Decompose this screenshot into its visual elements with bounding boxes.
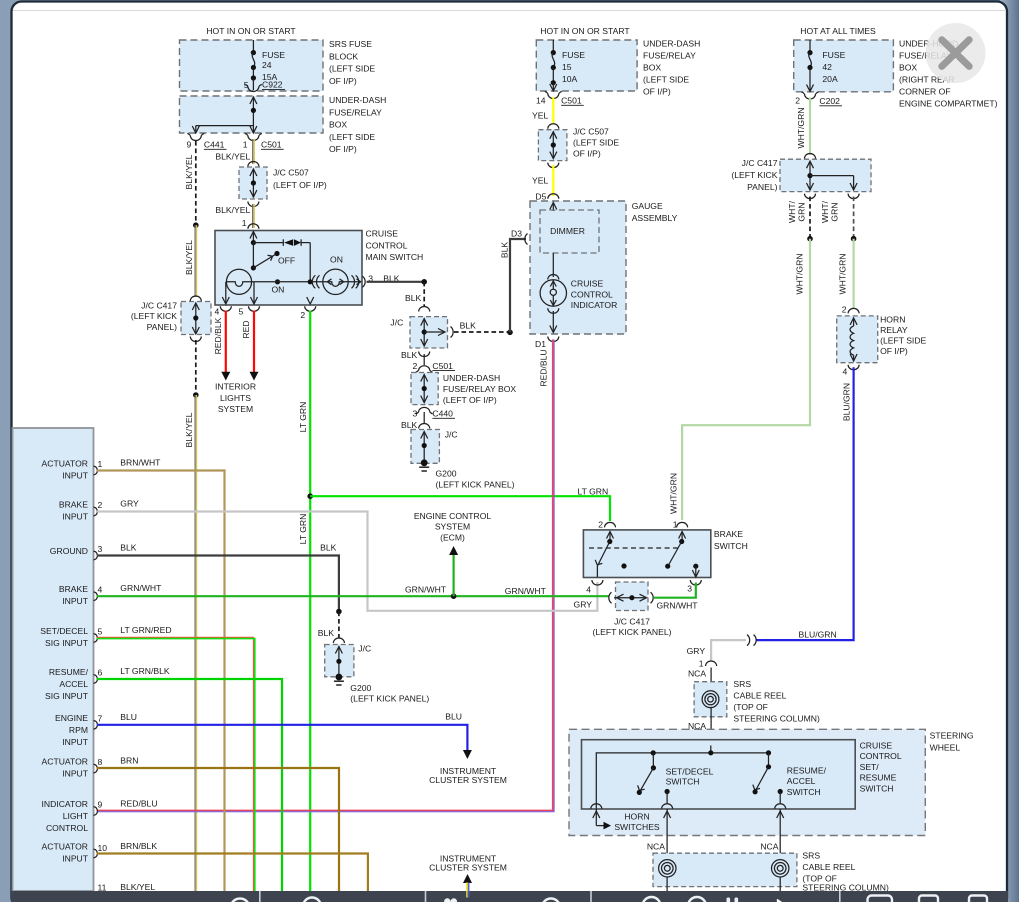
svg-text:FUSE: FUSE [262, 50, 285, 60]
svg-text:CONTROL: CONTROL [860, 751, 902, 761]
svg-text:G200: G200 [350, 683, 371, 693]
svg-text:BLK/YEL: BLK/YEL [120, 882, 155, 892]
svg-text:SET/DECEL: SET/DECEL [40, 626, 88, 636]
svg-text:STEERING: STEERING [930, 731, 974, 741]
connector into J/C C417 [190, 296, 201, 301]
svg-text:C501: C501 [561, 96, 582, 106]
svg-text:YEL: YEL [532, 111, 548, 121]
label HORN SWITCHES [614, 812, 660, 832]
svg-text:RESUME/: RESUME/ [787, 765, 827, 775]
label CRUISE CONTROL INDICATOR [571, 279, 617, 311]
indicator lamp ON right with parens [312, 269, 361, 294]
svg-text:WHT/GRN: WHT/GRN [669, 473, 679, 514]
resume output contact [778, 789, 783, 804]
connector cup entry [706, 744, 717, 749]
node junction [308, 279, 313, 284]
svg-text:2: 2 [795, 96, 800, 106]
pin 1 ACTUATOR INPUT [42, 459, 103, 481]
svg-text:CONTROL: CONTROL [571, 289, 613, 299]
svg-text:(LEFT KICK: (LEFT KICK [731, 170, 777, 180]
svg-text:6: 6 [98, 668, 103, 678]
connector C501 pin 2 [413, 361, 455, 372]
svg-text:ENGINE COMPARTMET): ENGINE COMPARTMET) [899, 99, 998, 109]
connector horn relay pin 4 [848, 365, 859, 370]
svg-text:(LEFT KICK PANEL): (LEFT KICK PANEL) [436, 480, 515, 490]
svg-text:LT GRN/RED: LT GRN/RED [120, 625, 171, 635]
label SRS CABLE REEL (TOP OF STEERING COLUMN) 2 [802, 851, 889, 893]
pin 9 INDICATOR LIGHT CONTROL [42, 799, 103, 833]
wire set/decel down with arrow [664, 809, 671, 860]
svg-text:GRY: GRY [120, 499, 139, 509]
pin 1 entry arrow [250, 232, 257, 243]
label CRUISE CONTROL SET/ RESUME SWITCH [860, 741, 902, 794]
svg-text:FUSE: FUSE [822, 50, 845, 60]
svg-text:NCA: NCA [688, 669, 706, 679]
svg-text:FUSE/RELAY BOX: FUSE/RELAY BOX [443, 384, 516, 394]
junction dot [193, 222, 199, 228]
label G200 (LEFT KICK PANEL) second [350, 683, 429, 704]
svg-text:BRAKE: BRAKE [59, 500, 88, 510]
svg-text:OFF: OFF [278, 255, 295, 265]
connector brake pin 2 top [605, 522, 616, 527]
svg-text:ACTUATOR: ACTUATOR [42, 459, 88, 469]
svg-text:HOT IN ON OR START: HOT IN ON OR START [540, 26, 630, 36]
svg-text:J/C: J/C [390, 318, 403, 328]
label J/C C417 (LEFT KICK PANEL) [131, 301, 177, 332]
svg-text:ENGINE CONTROL: ENGINE CONTROL [414, 511, 492, 521]
svg-text:OF I/P): OF I/P) [573, 149, 601, 159]
svg-text:SRS: SRS [802, 851, 820, 861]
svg-text:INPUT: INPUT [62, 854, 89, 864]
svg-text:(LEFT OF I/P): (LEFT OF I/P) [443, 395, 497, 405]
svg-text:ACTUATOR: ACTUATOR [42, 842, 88, 852]
close button [926, 23, 986, 83]
connector above J/C 2 [419, 424, 430, 429]
node junction BLK [421, 279, 427, 285]
node junction left [807, 236, 813, 242]
svg-text:J/C C417: J/C C417 [742, 158, 778, 168]
label RESUME/ ACCEL SWITCH [787, 765, 827, 797]
wires through reel 2 [667, 877, 780, 891]
svg-text:14: 14 [536, 96, 546, 106]
svg-text:PANEL): PANEL) [147, 322, 178, 332]
mouse cursor [776, 898, 788, 902]
wire down from diodes [309, 243, 311, 282]
pin 2 BRAKE INPUT [59, 500, 103, 522]
svg-text:3: 3 [687, 584, 692, 594]
ground G200 [419, 459, 429, 471]
wire WHT/GRN dashed left [809, 197, 811, 239]
SRS cable reel box 2 [653, 853, 797, 886]
connector below J/C C417 [190, 337, 201, 342]
connector above lamp [548, 275, 559, 280]
svg-text:SET/DECEL: SET/DECEL [666, 766, 714, 776]
node junction LT GRN branch [307, 493, 313, 499]
svg-text:BLU: BLU [445, 712, 462, 722]
J/C internals with right exit [421, 319, 445, 346]
ground G200 second [334, 674, 344, 685]
svg-text:LIGHT: LIGHT [63, 811, 89, 821]
wire BLK/YEL tan (dot to J/C C417) [195, 225, 196, 297]
svg-text:BLK: BLK [120, 543, 137, 553]
wire to diodes [253, 242, 283, 244]
wire WHT/GRN pale [809, 98, 811, 156]
wire BRN/WHT pin1 [97, 471, 225, 892]
J/C box (BLK) [410, 317, 448, 348]
svg-text:10: 10 [98, 843, 108, 853]
svg-text:FUSE/RELAY: FUSE/RELAY [329, 107, 382, 117]
svg-text:GROUND: GROUND [50, 546, 88, 556]
svg-text:LIGHTS: LIGHTS [220, 393, 251, 403]
svg-text:SWITCH: SWITCH [860, 783, 894, 793]
pin 7 ENGINE RPM INPUT [55, 713, 102, 747]
svg-text:BOX: BOX [899, 63, 917, 73]
bottom toolbar [11, 891, 1008, 902]
svg-text:LT GRN: LT GRN [298, 514, 308, 545]
connector resume pin bottom [775, 804, 786, 809]
svg-text:HORN: HORN [880, 315, 905, 325]
J/C C417 internals [192, 303, 199, 334]
wire GRN/WHT brake pin3 [654, 583, 696, 598]
svg-text:CORNER OF: CORNER OF [899, 87, 951, 97]
wire dimmer to lamp [552, 253, 554, 277]
node resume branch dot [766, 750, 771, 755]
svg-text:WHT/: WHT/ [820, 200, 830, 223]
svg-text:LT GRN/BLK: LT GRN/BLK [120, 666, 170, 676]
svg-text:SRS: SRS [733, 679, 751, 689]
svg-text:10A: 10A [562, 74, 578, 84]
arrow to ECM [449, 546, 458, 555]
svg-text:J/C: J/C [445, 430, 458, 440]
svg-text:YEL: YEL [532, 176, 548, 186]
wire GRN/WHT pin4 [97, 595, 609, 597]
svg-text:CRUISE: CRUISE [366, 229, 399, 239]
wire LT GRN/RED pin5 [97, 637, 255, 891]
svg-text:24: 24 [262, 60, 272, 70]
connector brake pin 3 bottom [690, 580, 701, 585]
svg-text:RED/BLK: RED/BLK [213, 317, 223, 354]
label STEERING WHEEL [930, 731, 974, 753]
svg-text:(ECM): (ECM) [440, 532, 465, 542]
svg-text:G200: G200 [436, 469, 457, 479]
svg-text:(LEFT KICK PANEL): (LEFT KICK PANEL) [593, 627, 672, 637]
connector above J/C C417 right [805, 154, 816, 159]
connector D5 [548, 194, 559, 199]
svg-text:BRAKE: BRAKE [59, 584, 88, 594]
svg-text:2: 2 [300, 310, 305, 320]
wire GRN/WHT up to ECM [453, 554, 455, 596]
svg-text:INPUT: INPUT [62, 471, 89, 481]
svg-text:OF I/P): OF I/P) [643, 87, 671, 97]
spiral reel 1 [702, 691, 719, 708]
label G200 (LEFT KICK PANEL) [436, 469, 515, 490]
wire LT GRN pin 2 down full height [309, 311, 311, 892]
box internals [421, 375, 428, 403]
wire BLK up to dimmer D3 [510, 239, 526, 332]
connector C440 pin 3 [413, 407, 455, 418]
header hairline [13, 10, 1006, 12]
svg-text:RPM: RPM [69, 725, 88, 735]
connectors below J/C C417 right [805, 194, 860, 199]
gauge assembly box [530, 201, 626, 334]
svg-text:BRAKE: BRAKE [714, 529, 743, 539]
switch lever OFF [251, 243, 280, 271]
svg-text:CLUSTER SYSTEM: CLUSTER SYSTEM [429, 775, 507, 785]
svg-text:GRN/WHT: GRN/WHT [120, 583, 162, 593]
node set/decel branch dot [651, 750, 656, 755]
svg-text:BRN/WHT: BRN/WHT [120, 458, 161, 468]
J/C C417 box green [616, 582, 649, 611]
pin 3 GROUND [50, 544, 103, 560]
label ENGINE CONTROL SYSTEM (ECM) [414, 511, 492, 543]
svg-text:LT GRN: LT GRN [578, 487, 609, 497]
svg-text:9: 9 [98, 800, 103, 810]
svg-text:BLK: BLK [401, 420, 418, 430]
wire YEL [552, 97, 554, 123]
connector pin 3 [363, 276, 366, 287]
svg-text:OF I/P): OF I/P) [880, 346, 908, 356]
svg-text:PANEL): PANEL) [747, 182, 778, 192]
wire BLK dashed right [454, 331, 510, 333]
J/C C417 box right [780, 159, 871, 191]
svg-text:D3: D3 [511, 228, 522, 238]
svg-text:BLK/YEL: BLK/YEL [215, 152, 250, 162]
arrow to interior lights [221, 372, 230, 381]
label WHT/ GRN 2-line right [820, 200, 840, 223]
under-dash fuse/relay box (middle) [536, 40, 637, 91]
cruise control indicator lamp [540, 280, 566, 306]
wire BLK from pin 3 [367, 281, 425, 283]
wire BLK dashed down [423, 282, 425, 307]
svg-text:WHT/GRN: WHT/GRN [795, 253, 805, 294]
svg-text:CONTROL: CONTROL [46, 823, 88, 833]
svg-text:FUSE: FUSE [562, 50, 585, 60]
wire into reel [710, 668, 712, 692]
wire BRN pin8 [97, 768, 339, 891]
J/C C417 right internals [807, 161, 858, 190]
svg-text:(LEFT SIDE: (LEFT SIDE [329, 64, 375, 74]
connector C922 pin 5 [244, 80, 285, 92]
svg-text:OF I/P): OF I/P) [329, 76, 357, 86]
svg-text:GRN/WHT: GRN/WHT [405, 585, 447, 595]
SRS cable reel box 1 [694, 682, 727, 717]
svg-text:UNDER-DASH: UNDER-DASH [443, 373, 500, 383]
connector C202 pin 2 [795, 92, 842, 106]
wire BLK dashed to J/C [338, 612, 340, 638]
wire WHT/GRN pale left long [682, 239, 810, 520]
connector below lamp [548, 308, 559, 313]
label J/C C507 (LEFT SIDE OF I/P) [573, 127, 619, 159]
svg-text:C441: C441 [204, 140, 225, 150]
svg-text:RED/BLU: RED/BLU [120, 799, 157, 809]
wire GRY elbow to cable reel [711, 640, 746, 661]
pin 2 exit arrow [307, 297, 314, 304]
node junction dot [193, 392, 199, 398]
svg-text:(LEFT KICK: (LEFT KICK [131, 311, 177, 321]
svg-text:NCA: NCA [760, 842, 778, 852]
svg-text:D1: D1 [535, 339, 546, 349]
label GAUGE ASSEMBLY [632, 201, 678, 223]
node entry dot [708, 750, 713, 755]
svg-text:CABLE REEL: CABLE REEL [733, 691, 786, 701]
indicator lamp left [222, 269, 257, 304]
wire BLU pin7 [97, 725, 467, 751]
svg-text:INPUT: INPUT [62, 769, 89, 779]
svg-text:SIG INPUT: SIG INPUT [45, 638, 89, 648]
under-hood fuse/relay box [794, 40, 894, 92]
svg-text:J/C: J/C [358, 644, 371, 654]
connector above J/C [419, 307, 430, 312]
svg-text:STEERING COLUMN): STEERING COLUMN) [733, 714, 820, 724]
svg-text:(LEFT SIDE: (LEFT SIDE [880, 336, 926, 346]
svg-text:RELAY: RELAY [880, 325, 908, 335]
D5 entry arrow [550, 203, 557, 212]
label SRS FUSE BLOCK [329, 39, 375, 86]
svg-text:ENGINE: ENGINE [55, 713, 88, 723]
svg-text:WHT/: WHT/ [787, 200, 797, 223]
pin 5 SET/DECEL [40, 626, 102, 648]
connector C501 pin 14 [536, 92, 584, 106]
svg-text:ON: ON [272, 284, 285, 294]
svg-text:HORN: HORN [624, 812, 649, 822]
svg-text:SWITCHES: SWITCHES [614, 822, 660, 832]
J/C box 2 [411, 430, 439, 464]
svg-text:WHT/GRN: WHT/GRN [796, 107, 806, 148]
wire BLK/YEL dashed below J/C C417 [195, 340, 197, 395]
svg-text:OF I/P): OF I/P) [329, 144, 357, 154]
svg-text:ACTUATOR: ACTUATOR [42, 757, 88, 767]
svg-text:FUSE/RELAY: FUSE/RELAY [643, 51, 696, 61]
svg-text:RED/BLU: RED/BLU [539, 349, 549, 386]
svg-text:2: 2 [98, 500, 103, 510]
svg-text:9: 9 [187, 140, 192, 150]
wire YEL/BLU up from bottom [467, 883, 469, 892]
connector below J/C C507 [248, 202, 259, 207]
wire to D1 with arrow [550, 311, 557, 333]
wire WHT/GRN dashed right [853, 197, 855, 239]
connector above J/C G200 [333, 638, 344, 643]
svg-text:GRN: GRN [797, 202, 807, 221]
wire resume down with arrow [777, 809, 784, 860]
cruise control set/resume switch box [582, 740, 856, 809]
svg-text:CONTROL: CONTROL [366, 240, 408, 250]
under-dash fuse/relay box (left) [180, 96, 324, 133]
svg-text:1: 1 [98, 459, 103, 469]
dimmer box [540, 210, 599, 253]
svg-text:BLK/YEL: BLK/YEL [184, 412, 194, 447]
svg-text:BLK/YEL: BLK/YEL [184, 240, 194, 275]
brake switch box [583, 530, 710, 578]
svg-text:GRN/WHT: GRN/WHT [505, 586, 547, 596]
svg-text:BRN/BLK: BRN/BLK [120, 841, 157, 851]
cruise control main switch box [215, 231, 362, 306]
connector D3 with arrow [525, 234, 538, 245]
label INSTRUMENT CLUSTER SYSTEM [429, 766, 507, 785]
pin 10 ACTUATOR INPUT [42, 842, 108, 864]
wire BLK/YEL tan down to bottom [195, 395, 196, 891]
svg-text:BLU: BLU [120, 712, 137, 722]
svg-text:3: 3 [98, 544, 103, 554]
J/C C507 box (middle) [538, 130, 567, 161]
svg-text:BLK/YEL: BLK/YEL [184, 154, 194, 189]
svg-text:J/C C417: J/C C417 [614, 617, 650, 627]
svg-text:CLUSTER SYSTEM: CLUSTER SYSTEM [429, 863, 507, 873]
label CRUISE CONTROL MAIN SWITCH [366, 229, 424, 263]
J/C 2 internals [421, 432, 428, 463]
svg-text:1: 1 [242, 218, 247, 228]
spiral reel 2 right [772, 860, 789, 877]
brake left lever [595, 542, 610, 578]
svg-text:(LEFT SIDE: (LEFT SIDE [329, 132, 375, 142]
svg-text:CRUISE: CRUISE [571, 279, 604, 289]
svg-text:NCA: NCA [647, 842, 665, 852]
connector cruise pin 1 [248, 224, 259, 229]
node junction right [851, 236, 857, 242]
svg-text:42: 42 [822, 62, 832, 72]
svg-text:BLK: BLK [405, 293, 422, 303]
svg-text:5: 5 [239, 306, 244, 316]
actuator connector box [13, 428, 94, 891]
node ON contact [275, 279, 280, 284]
node junction ECM branch [451, 593, 457, 599]
wire reel to steering wheel [710, 707, 712, 740]
wire GRY pin2 to brake switch pin 4 [97, 512, 597, 611]
connector brake pin 1 top [677, 522, 688, 527]
spiral reel 2 left [659, 860, 676, 877]
svg-text:BLOCK: BLOCK [329, 51, 358, 61]
svg-text:(TOP OF: (TOP OF [733, 702, 768, 712]
svg-text:CABLE REEL: CABLE REEL [802, 862, 855, 872]
connector horn relay pin 2 [848, 308, 859, 313]
svg-text:ACCEL: ACCEL [787, 776, 816, 786]
svg-text:INDICATOR: INDICATOR [571, 300, 617, 310]
horn relay coil [850, 318, 857, 361]
label INSTRUMENT CLUSTER SYSTEM 2 [429, 853, 507, 872]
svg-text:15: 15 [562, 62, 572, 72]
svg-text:UNDER-DASH: UNDER-DASH [643, 39, 700, 49]
svg-text:J/C C507: J/C C507 [573, 127, 609, 137]
svg-text:1: 1 [243, 140, 248, 150]
label UNDER-DASH FUSE/RELAY BOX (middle) [643, 39, 700, 97]
wire BLU/GRN [756, 367, 854, 640]
svg-text:GAUGE: GAUGE [632, 201, 663, 211]
svg-text:UNDER-DASH: UNDER-DASH [329, 95, 386, 105]
svg-text:4: 4 [586, 584, 591, 594]
svg-text:WHEEL: WHEEL [930, 743, 961, 753]
svg-text:C501: C501 [432, 361, 453, 371]
svg-text:4: 4 [98, 585, 103, 595]
svg-text:2: 2 [842, 305, 847, 315]
svg-text:(LEFT KICK PANEL): (LEFT KICK PANEL) [350, 694, 429, 704]
svg-text:BOX: BOX [643, 63, 661, 73]
wire BRN/BLK pin10 [97, 854, 368, 892]
svg-text:3: 3 [413, 409, 418, 419]
svg-text:(LEFT SIDE: (LEFT SIDE [643, 75, 689, 85]
wire RED/BLU from D1 to pin 9 [97, 340, 554, 812]
label UNDER-HOOD FUSE/RELAY BOX [899, 39, 998, 109]
label J/C C417 (LEFT KICK PANEL) green [593, 617, 672, 638]
connector right of J/C [451, 327, 454, 338]
svg-text:C202: C202 [819, 96, 840, 106]
svg-text:GRY: GRY [574, 600, 593, 610]
wire WHT/GRN pale right [852, 239, 854, 309]
label UNDER-DASH FUSE/RELAY BOX [329, 95, 386, 154]
J/C box G200 second [325, 645, 354, 677]
pin 4 BRAKE INPUT [59, 584, 103, 606]
SRS fuse block box [180, 40, 324, 91]
svg-text:4: 4 [843, 367, 848, 377]
wire BLK short [423, 412, 425, 424]
